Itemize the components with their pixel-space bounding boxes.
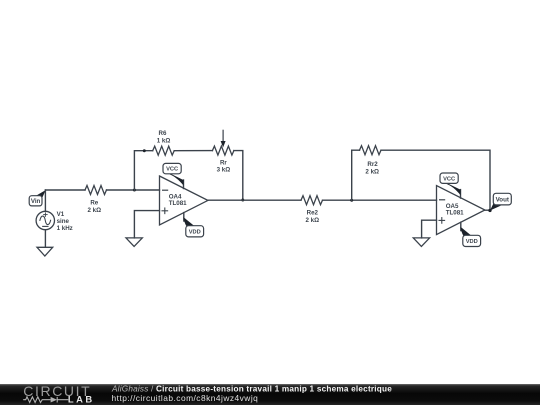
resistor R6	[153, 130, 175, 155]
wire feedback 2 vertical up	[352, 150, 360, 200]
svg-text:1 kHz: 1 kHz	[57, 225, 73, 232]
ground (OA4)	[126, 238, 142, 247]
svg-text:http://circuitlab.com/c8kn4jwz: http://circuitlab.com/c8kn4jwz4vwjq	[112, 393, 259, 403]
svg-text:Vout: Vout	[496, 196, 509, 203]
node junction at OA5 output	[488, 209, 491, 212]
svg-text:TL081: TL081	[446, 210, 464, 217]
wire Re2 to OA5 inverting input	[323, 199, 437, 201]
op-amp OA4	[160, 176, 208, 225]
wire OA5 output stub	[485, 209, 490, 211]
op-amp OA5	[437, 186, 485, 235]
power flag VCC (OA4)	[163, 163, 184, 188]
power flag VDD (OA4)	[183, 213, 203, 237]
svg-text:Re: Re	[90, 200, 98, 207]
svg-text:VDD: VDD	[189, 230, 201, 236]
svg-text:VCC: VCC	[166, 167, 178, 173]
wire Rr right down to output	[234, 151, 243, 200]
footer bar	[0, 384, 540, 405]
svg-text:V1: V1	[57, 211, 65, 218]
svg-text:2 kΩ: 2 kΩ	[88, 207, 102, 214]
wire R6 to Rr	[174, 150, 212, 152]
node junction at Re / feedback	[133, 189, 136, 192]
svg-text:Rr: Rr	[220, 159, 227, 166]
wire Rr2 to OA5 output	[381, 150, 490, 210]
svg-text:Re2: Re2	[307, 210, 319, 217]
node junction on feedback rail	[143, 149, 146, 152]
wire OA5 non-inverting input to ground	[422, 220, 437, 238]
resistor Re2	[301, 196, 323, 224]
power flag VDD (OA5)	[460, 222, 480, 246]
potentiometer Rr	[212, 130, 234, 173]
svg-text:1 kΩ: 1 kΩ	[157, 137, 171, 144]
svg-text:VDD: VDD	[466, 239, 478, 245]
svg-text:2 kΩ: 2 kΩ	[365, 169, 379, 176]
voltage source V1	[36, 190, 73, 247]
logo resistor-diode squiggle	[23, 397, 68, 403]
svg-text:sine: sine	[57, 218, 70, 225]
power flag VCC (OA5)	[440, 173, 461, 198]
node junction at Re2 / feedback 2	[350, 199, 353, 202]
svg-text:Vin: Vin	[31, 198, 41, 205]
wire Re to OA4 inverting input	[107, 189, 160, 191]
node Vout label	[490, 193, 511, 210]
wire OA4 non-inverting input to ground	[134, 211, 159, 238]
svg-text:VCC: VCC	[443, 176, 455, 182]
resistor Re	[85, 186, 107, 214]
resistor Rr2	[360, 146, 382, 176]
ground (OA5)	[413, 238, 429, 247]
svg-text:TL081: TL081	[169, 200, 187, 207]
svg-text:Rr2: Rr2	[367, 161, 378, 168]
svg-text:3 kΩ: 3 kΩ	[217, 167, 231, 174]
wire OA4 output to Re2	[208, 199, 301, 201]
svg-text:LAB: LAB	[68, 394, 95, 405]
node Vin label	[29, 190, 46, 206]
wire Vin node to Re	[45, 189, 85, 191]
ground (V1)	[37, 247, 53, 256]
svg-text:2 kΩ: 2 kΩ	[306, 217, 320, 224]
node junction at OA4 output	[241, 199, 244, 202]
svg-text:R6: R6	[159, 130, 167, 137]
wire feedback left vertical	[134, 151, 152, 190]
